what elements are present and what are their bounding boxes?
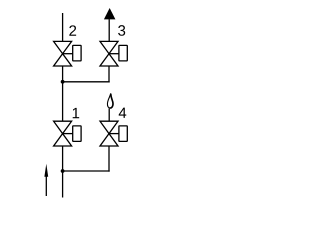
- label 3: [118, 25, 125, 36]
- wire: upper cross connector: [63, 81, 110, 83]
- label 1: [73, 108, 79, 118]
- outlet arrow (flow direction, top right): [104, 8, 116, 19]
- wire: lower cross connector: [63, 170, 110, 172]
- label 2: [69, 25, 76, 35]
- valve 2 actuator link: [63, 53, 73, 55]
- valve 1 body: [54, 121, 72, 146]
- junction dot (lower, on left line): [61, 169, 65, 173]
- valve 2 actuator box: [73, 45, 81, 61]
- junction dot (upper, on left line): [61, 80, 65, 84]
- label 4: [119, 108, 127, 118]
- valve 4 actuator link: [109, 133, 119, 135]
- wire: valve 4 down to lower cross connector: [108, 146, 110, 172]
- inlet flow arrow (bottom left): [44, 164, 48, 196]
- wire: valve 2 down through junction to valve 1: [62, 66, 64, 121]
- valve 2 body: [54, 41, 72, 66]
- valve 4 body: [100, 121, 118, 146]
- valve 3 actuator link: [109, 53, 119, 55]
- wire: valve 3 down to upper cross connector: [108, 66, 110, 83]
- wire: inlet riser above valve 2: [62, 13, 64, 41]
- wire: valve 1 down to bottom inlet: [62, 146, 64, 198]
- valve 1 actuator box: [73, 126, 81, 142]
- valve 3 actuator box: [119, 45, 127, 61]
- wire: from outlet arrow down to valve 3: [108, 19, 110, 41]
- valve 4 actuator box: [119, 126, 127, 142]
- valve 3 body: [100, 41, 118, 66]
- valve 1 actuator link: [63, 133, 73, 135]
- wire: flame down to valve 4: [108, 108, 110, 121]
- pilot flame symbol above valve 4: [107, 93, 112, 108]
